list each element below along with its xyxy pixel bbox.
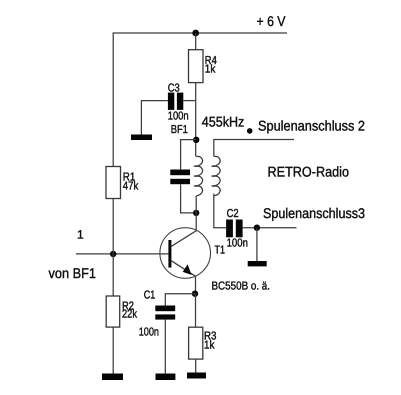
ground R2	[102, 374, 123, 381]
wire C3 left to ground	[141, 101, 168, 135]
wire BF1 cap top branch	[181, 140, 197, 170]
node Spulenanschluss 2 marker	[247, 128, 253, 134]
svg-text:100n: 100n	[139, 326, 159, 338]
svg-text:BC550B o. ä.: BC550B o. ä.	[212, 281, 271, 293]
wire R2 to ground	[112, 327, 114, 373]
svg-text:100n: 100n	[227, 237, 248, 249]
wire C2 to Spulenanschluss3	[243, 227, 297, 229]
wire emitter to node	[195, 276, 197, 294]
svg-text:Spulenanschluss 2: Spulenanschluss 2	[258, 118, 365, 134]
transistor T1 base bar	[168, 240, 171, 268]
resistor R2	[106, 296, 120, 327]
svg-text:T1: T1	[215, 245, 226, 257]
transistor T1 emitter diagonal	[171, 261, 195, 276]
svg-text:1k: 1k	[204, 339, 215, 351]
wire secondary bottom to C2	[214, 194, 226, 228]
svg-text:C2: C2	[227, 208, 239, 220]
transistor T1 emitter arrow	[183, 264, 192, 275]
wire base input	[76, 253, 168, 255]
svg-text:+ 6 V: + 6 V	[257, 13, 287, 29]
wire emitter node to C1	[165, 294, 195, 306]
resistor R3	[189, 327, 203, 359]
wire R1 to base junction	[112, 199, 114, 255]
svg-text:BF1: BF1	[171, 124, 188, 136]
resistor R1	[106, 167, 121, 199]
wire coil bottom to collector	[195, 196, 197, 231]
wire top supply rail	[113, 33, 287, 167]
capacitor C2	[226, 220, 233, 238]
node base junction	[110, 251, 116, 257]
svg-text:C3: C3	[168, 83, 180, 95]
svg-text:RETRO-Radio: RETRO-Radio	[268, 163, 350, 179]
ceramic filter BF1 capacitor plates	[170, 170, 190, 176]
svg-text:C1: C1	[144, 289, 156, 301]
node C2 ground junction	[254, 225, 260, 231]
wire C1 to ground	[164, 320, 166, 374]
wire R4 to node BF1 top	[195, 83, 197, 157]
svg-text:1k: 1k	[205, 63, 216, 75]
svg-text:22k: 22k	[122, 309, 137, 321]
wire supply to R4	[195, 33, 197, 50]
svg-text:1: 1	[77, 228, 84, 242]
wire emitter node to R3	[195, 294, 197, 328]
wire C3 right to vertical	[183, 100, 195, 102]
wire junction to ground	[256, 228, 258, 261]
node emitter junction	[192, 291, 198, 297]
wire BF1 cap bottom branch	[181, 184, 197, 213]
capacitor C1	[155, 306, 175, 312]
svg-text:100n: 100n	[168, 111, 189, 123]
transistor T1 collector diagonal	[171, 231, 196, 247]
ground R3	[187, 373, 206, 379]
wire secondary top to Spulenanschluss 2	[214, 140, 294, 157]
wire R3 to ground	[195, 359, 197, 372]
inductor secondary coil	[212, 156, 220, 195]
ground C2	[248, 261, 267, 266]
svg-text:Spulenanschluss3: Spulenanschluss3	[263, 205, 365, 221]
wire base junction to R2	[112, 254, 114, 296]
resistor R4	[189, 50, 204, 83]
inductor BF1 primary coil	[194, 156, 202, 195]
svg-text:455kHz: 455kHz	[202, 113, 245, 129]
node supply junction	[192, 30, 199, 37]
svg-text:47k: 47k	[123, 180, 139, 192]
ground C3	[131, 135, 152, 141]
transistor T1 circle	[160, 228, 211, 279]
node BF1 top	[193, 137, 199, 143]
node BF1 bottom	[193, 210, 199, 216]
capacitor C3	[168, 93, 174, 110]
svg-text:von BF1: von BF1	[49, 265, 97, 281]
ground C1	[156, 374, 176, 381]
